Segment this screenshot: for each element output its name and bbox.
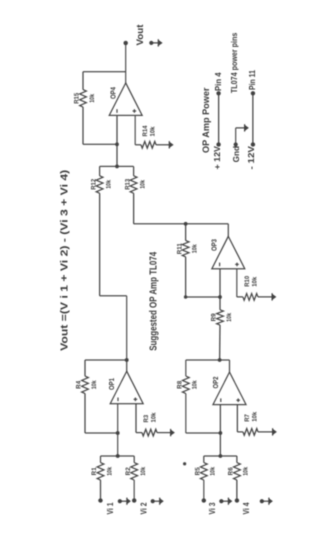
- svg-text:+ 12V: + 12V: [212, 146, 222, 170]
- svg-text:10k: 10k: [192, 244, 198, 254]
- svg-text:10k: 10k: [107, 466, 113, 476]
- svg-text:R14: R14: [143, 125, 149, 137]
- svg-text:OP1: OP1: [107, 378, 116, 390]
- svg-text:R6: R6: [229, 467, 235, 476]
- svg-text:R15: R15: [75, 92, 81, 104]
- svg-text:Pin 11: Pin 11: [247, 70, 257, 90]
- svg-text:- 12V: - 12V: [246, 145, 256, 169]
- svg-text:10k: 10k: [92, 380, 98, 390]
- svg-text:Suggested OP Amp TL074: Suggested OP Amp TL074: [148, 251, 159, 350]
- svg-text:10k: 10k: [211, 466, 217, 476]
- svg-text:R13: R13: [125, 178, 131, 190]
- svg-text:Vout: Vout: [135, 24, 146, 46]
- svg-text:10k: 10k: [90, 93, 96, 103]
- svg-text:R4: R4: [77, 380, 83, 389]
- svg-text:R7: R7: [245, 413, 251, 421]
- svg-text:10k: 10k: [252, 411, 258, 422]
- svg-text:10k: 10k: [140, 179, 146, 189]
- svg-text:OP3: OP3: [210, 239, 219, 251]
- svg-text:10k: 10k: [106, 179, 112, 189]
- svg-text:R12: R12: [91, 178, 97, 190]
- svg-text:R8: R8: [178, 380, 184, 389]
- svg-text:Vi 3: Vi 3: [208, 502, 217, 514]
- svg-text:R5: R5: [196, 467, 202, 476]
- svg-text:10k: 10k: [252, 276, 258, 287]
- svg-text:Pin 4: Pin 4: [213, 72, 223, 91]
- svg-text:R3: R3: [144, 414, 150, 422]
- svg-text:OP4: OP4: [109, 87, 118, 99]
- svg-text:R1: R1: [92, 467, 98, 476]
- svg-text:Vi 2: Vi 2: [140, 502, 149, 514]
- svg-text:Vi 4: Vi 4: [242, 502, 251, 514]
- svg-text:OP Amp Power: OP Amp Power: [201, 87, 212, 153]
- svg-text:R11: R11: [177, 243, 183, 255]
- svg-text:OP2: OP2: [211, 377, 220, 389]
- svg-text:TL074 power pins: TL074 power pins: [230, 32, 239, 93]
- svg-text:10k: 10k: [150, 126, 156, 137]
- svg-text:R10: R10: [245, 275, 251, 287]
- svg-text:10k: 10k: [227, 312, 233, 322]
- svg-text:10k: 10k: [244, 466, 250, 476]
- svg-text:R9: R9: [212, 313, 218, 322]
- svg-text:R2: R2: [126, 467, 132, 476]
- svg-text:10k: 10k: [193, 380, 199, 390]
- svg-text:Vout =(V i 1 + Vi 2) - (Vi 3 +: Vout =(V i 1 + Vi 2) - (Vi 3 + Vi 4): [60, 170, 71, 351]
- svg-text:10k: 10k: [151, 412, 157, 423]
- svg-text:Gnd: Gnd: [231, 146, 241, 163]
- svg-text:Vi 1: Vi 1: [106, 502, 115, 514]
- svg-text:10k: 10k: [141, 466, 147, 476]
